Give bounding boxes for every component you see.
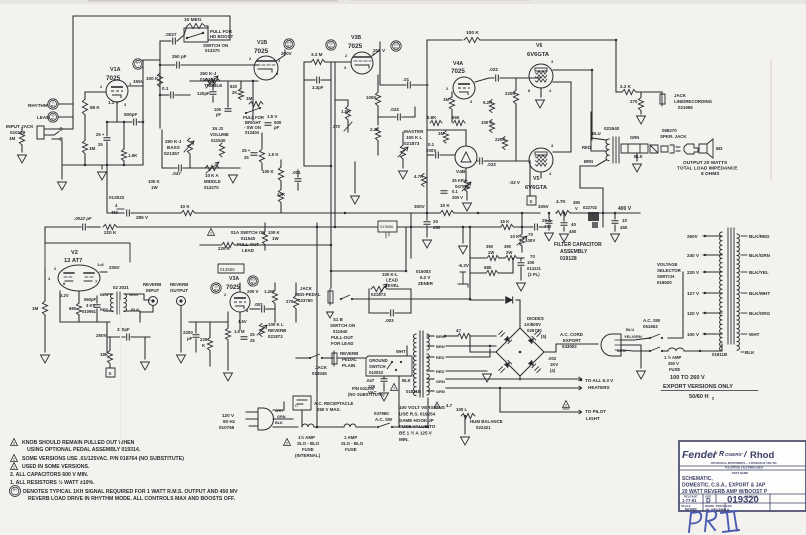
wire V6 plate to OT: [553, 70, 592, 140]
svg-text:FILTER CAPACITOR: FILTER CAPACITOR: [554, 242, 602, 248]
svg-text:VOLTAGE: VOLTAGE: [657, 262, 678, 267]
speaker plug 2: [684, 144, 698, 154]
wire: [140, 306, 153, 312]
label 400 V: [618, 206, 632, 212]
wire: [427, 335, 434, 337]
label BLK: [131, 307, 139, 312]
note triangle: [391, 384, 398, 391]
svg-text:1.5 K: 1.5 K: [268, 152, 279, 157]
wire: [206, 26, 208, 40]
label 100: [214, 107, 222, 112]
svg-text:BASS: BASS: [167, 145, 180, 150]
label 4: [549, 171, 552, 176]
svg-text:(4): (4): [550, 368, 556, 373]
svg-text:.022: .022: [489, 67, 498, 72]
svg-text:.022: .022: [390, 107, 399, 112]
wire: [106, 142, 108, 165]
label 3.2V: [60, 293, 69, 298]
label REVERB: [170, 282, 188, 287]
svg-text:GRN: GRN: [436, 379, 445, 384]
svg-text:1. ALL RESISTORS ½ WATT: 1. ALL RESISTORS ½ WATT ±10%.: [10, 479, 95, 486]
wire: [61, 165, 63, 179]
label REVERB LOAD DRIVE: [28, 496, 236, 502]
wire: [21, 128, 23, 131]
label 250 K-J: [165, 139, 182, 144]
capacitor 70uF: [535, 224, 538, 230]
wire: [475, 78, 494, 82]
resistor: [375, 128, 380, 141]
svg-text:FUSE: FUSE: [345, 447, 357, 452]
ground PT centertap: [483, 374, 492, 382]
svg-text:680: 680: [484, 265, 492, 270]
svg-text:.01: .01: [403, 77, 410, 82]
tube V6 6V6GTA: [529, 64, 553, 88]
label 100 TO 260V: [670, 375, 705, 381]
svg-text:INPUT JACK: INPUT JACK: [6, 124, 34, 129]
svg-text:-6.2V: -6.2V: [458, 263, 470, 268]
wire: [239, 312, 241, 330]
wire: [477, 160, 478, 162]
ground: [560, 234, 569, 242]
svg-text:MV: MV: [287, 44, 292, 48]
svg-text:MV: MV: [51, 104, 56, 108]
wire: [144, 337, 146, 359]
label VOLUME: [210, 132, 229, 137]
label 015003: [416, 269, 431, 274]
label 100 K: [262, 169, 275, 174]
wire: [200, 244, 221, 246]
label WHT: [275, 409, 284, 413]
wire: [261, 164, 263, 170]
label V1A: [110, 67, 121, 73]
svg-text:GRN: GRN: [630, 135, 639, 140]
wire top 100K left: [427, 39, 462, 41]
resistor 1M: [82, 141, 87, 154]
lead BLK/YEL: [741, 271, 747, 273]
label .047: [172, 171, 181, 176]
label 250 V: [668, 361, 679, 366]
label 60 Hz: [223, 419, 236, 424]
label 330pF: [117, 327, 130, 332]
label 1.5K: [128, 153, 138, 158]
label 6.2 V: [420, 275, 430, 280]
svg-text:V2: V2: [71, 250, 78, 256]
export transformer secondary: [737, 234, 739, 350]
label P/N 041200: [352, 386, 375, 391]
label TO PILOT: [585, 409, 606, 414]
svg-text:013556: 013556: [220, 267, 235, 272]
wire long vertical V1A: [142, 86, 144, 165]
svg-text:1.2M: 1.2M: [264, 289, 274, 294]
svg-text:3.2V: 3.2V: [60, 293, 69, 298]
label 7025: [254, 48, 269, 55]
svg-text:0.1: 0.1: [162, 86, 169, 91]
label LEAD: [37, 115, 50, 120]
capacitor: [480, 158, 483, 164]
svg-text:2. ALL CAPACITORS 600 V: 2. ALL CAPACITORS 600 V MIN.: [10, 472, 89, 478]
svg-text:010023: 010023: [369, 370, 384, 375]
svg-text:PLAIN: PLAIN: [342, 363, 355, 368]
wire: [470, 257, 486, 259]
label 2W: [506, 250, 512, 255]
label 2: [54, 266, 57, 271]
wire: [684, 350, 700, 352]
label 6V6GTA: [527, 52, 550, 58]
svg-text:010766: 010766: [219, 425, 235, 430]
label z: [712, 396, 715, 401]
note resistors: [10, 479, 95, 486]
label BRIGHT: [245, 120, 261, 125]
title block frame: [679, 441, 806, 511]
wire feedback top: [73, 15, 230, 17]
label 010766: [219, 425, 235, 430]
ground: [461, 437, 470, 445]
reverb transformer primary: [110, 294, 113, 312]
capacitor: [134, 119, 137, 125]
label 4: [549, 88, 552, 93]
wire: [321, 79, 331, 81]
svg-text:2W: 2W: [488, 250, 494, 255]
label FUSE: [302, 447, 314, 452]
capacitor .003: [391, 310, 394, 316]
wire to transformer: [427, 398, 429, 427]
resistor 18K: [107, 351, 112, 364]
svg-text:3.3 M: 3.3 M: [311, 52, 323, 57]
wire heater 2: [446, 387, 578, 389]
label 037960: [374, 411, 389, 416]
resistor 1.5K: [121, 149, 126, 161]
svg-text:200V: 200V: [426, 148, 436, 153]
filter cap: [546, 221, 552, 224]
label (4): [550, 368, 556, 373]
label /: [743, 449, 748, 459]
label V5: [533, 176, 539, 182]
label 20: [433, 219, 438, 224]
svg-text:019320: 019320: [727, 495, 759, 506]
wire: [227, 312, 229, 328]
wire lower rail: [117, 226, 470, 228]
wire: [240, 81, 242, 89]
fuse internal: [302, 424, 314, 427]
label 068270: [662, 128, 677, 133]
svg-text:25: 25: [250, 332, 255, 337]
svg-text:BLK: BLK: [402, 378, 411, 383]
wire: [45, 226, 81, 228]
label tap 260V: [687, 234, 699, 239]
diode bias rectifier: [506, 296, 513, 303]
svg-text:TO PILOT: TO PILOT: [585, 409, 606, 414]
wire: [304, 62, 331, 166]
wire long vertical: [316, 223, 318, 427]
label 1: [129, 81, 132, 86]
svg-text:BLU: BLU: [626, 327, 634, 332]
svg-text:250 K-J: 250 K-J: [165, 139, 182, 144]
label FUSE: [669, 367, 680, 372]
PT primary winding: [413, 334, 416, 396]
svg-text:220: 220: [200, 337, 208, 342]
label RED: [436, 369, 445, 374]
svg-text:8Ω: 8Ω: [716, 146, 723, 152]
wire: [520, 267, 522, 280]
label 220K: [495, 137, 506, 142]
wire cathode row: [107, 121, 132, 123]
wire: [470, 299, 504, 301]
svg-text:B: B: [109, 371, 112, 376]
label BRN: [436, 334, 445, 339]
svg-text:285 V: 285 V: [136, 215, 149, 220]
svg-text:120 V: 120 V: [687, 311, 700, 316]
wire: [465, 168, 467, 180]
label RELEASE: [684, 495, 697, 499]
label 1-77-81: [682, 498, 697, 503]
resistor: [278, 167, 283, 181]
wire: [316, 358, 318, 392]
bright switch: [245, 107, 261, 114]
wire: [430, 212, 440, 214]
resistor: [449, 97, 454, 110]
note knob: [22, 440, 135, 446]
svg-text:220 K: 220 K: [104, 230, 117, 235]
ground line jack: [637, 116, 646, 124]
svg-text:25 +: 25 +: [96, 132, 105, 137]
svg-text:560pF: 560pF: [84, 297, 97, 302]
wire: [295, 283, 297, 295]
wire BRN to V5 plate: [580, 160, 606, 227]
svg-text:100 K: 100 K: [268, 230, 281, 235]
svg-text:100 VOLT VERSIONS: 100 VOLT VERSIONS: [399, 405, 445, 410]
switch S1B contact: [340, 295, 353, 300]
label 1N J2: [212, 126, 224, 131]
svg-text:A.C. CORD: A.C. CORD: [560, 332, 583, 337]
wire: [471, 335, 496, 337]
wire: [163, 212, 181, 214]
label DIODES: [527, 316, 544, 321]
svg-text:010128: 010128: [10, 130, 26, 135]
resistor: [293, 296, 298, 309]
label 3: [344, 65, 347, 70]
svg-text:25: 25: [244, 155, 249, 160]
ground V6 cathode: [536, 100, 545, 108]
svg-text:LINE/RECORDING: LINE/RECORDING: [674, 99, 713, 104]
label V4B: [456, 169, 466, 175]
wire: [335, 100, 348, 106]
wire BLK down: [398, 376, 400, 427]
wire: [123, 161, 125, 165]
svg-text:SELECTOR: SELECTOR: [657, 268, 682, 273]
ground: [351, 196, 360, 204]
reverb T core: [117, 292, 120, 314]
export transformer winding: [720, 232, 722, 351]
svg-text:200 V: 200 V: [452, 195, 463, 200]
note some versions: [22, 456, 184, 462]
label 1M: [438, 131, 444, 136]
label V4A: [453, 61, 463, 67]
label 155V: [133, 79, 145, 84]
svg-text:260V: 260V: [687, 234, 699, 239]
resistor 1M: [42, 301, 47, 315]
tap wire 127 V: [703, 292, 722, 294]
label 010951: [82, 309, 97, 314]
signal-level circle: [326, 40, 336, 50]
capacitor 0.1 200V: [436, 152, 439, 158]
export T core: [728, 228, 734, 344]
underline: [661, 390, 758, 392]
label JACK: [315, 365, 328, 370]
label 3.3 M: [311, 52, 323, 57]
svg-text:(INTERNAL): (INTERNAL): [295, 453, 321, 458]
label 25: [244, 155, 249, 160]
svg-text:120pF: 120pF: [197, 91, 210, 96]
wire: [520, 258, 522, 261]
wire: [229, 16, 231, 40]
label LINE/RECORDING: [674, 99, 713, 104]
tube V1B 7025: [254, 56, 278, 80]
svg-text:7025: 7025: [226, 284, 240, 291]
wire: [464, 416, 466, 434]
wire: [337, 357, 366, 359]
svg-text:100 K: 100 K: [262, 169, 275, 174]
label 450: [433, 225, 441, 230]
fuse 1 amp: [344, 424, 356, 427]
label MASTER: [404, 129, 424, 134]
svg-text:7025: 7025: [348, 43, 363, 50]
svg-text:100 K-L: 100 K-L: [382, 272, 398, 277]
signal-level circle: [391, 41, 401, 51]
svg-text:BLK/YEL: BLK/YEL: [749, 270, 769, 275]
arrow: [576, 386, 582, 390]
wire: [428, 154, 434, 156]
svg-text:500pF: 500pF: [124, 112, 137, 117]
wire: [212, 96, 214, 102]
wire long vertical: [330, 62, 332, 288]
lead BLK/ORG: [741, 312, 747, 314]
label tap 120 V: [687, 311, 700, 316]
svg-text:240 V: 240 V: [687, 253, 700, 258]
svg-text:330pF: 330pF: [117, 327, 130, 332]
bridge diode: [528, 360, 536, 368]
label .003: [385, 318, 394, 323]
svg-text:SWITCH: SWITCH: [657, 274, 674, 279]
handwritten PR II: [689, 511, 739, 532]
wire: [84, 115, 86, 140]
wire: [614, 225, 616, 231]
label SWITCH: [369, 364, 386, 369]
label GRN: [436, 379, 445, 384]
label 70: [528, 232, 533, 237]
label 1M: [246, 96, 253, 101]
label 68 K: [90, 105, 100, 110]
svg-text:BRN: BRN: [436, 334, 445, 339]
wire: [548, 213, 550, 219]
node B box 2: [106, 368, 115, 377]
wire: [160, 40, 171, 42]
resistor: [513, 90, 518, 104]
label 051663: [643, 324, 658, 329]
svg-text:016520: 016520: [657, 280, 672, 285]
svg-text:MIDDLE: MIDDLE: [204, 179, 221, 184]
tube V1A 7025: [106, 80, 128, 102]
tube V4A 7025: [453, 77, 475, 99]
label GROUND: [369, 358, 388, 363]
tap wire 220 V: [703, 271, 722, 273]
label 2: [345, 53, 348, 58]
wire: [563, 213, 565, 221]
jack spkr tip: [650, 145, 658, 153]
wire: [160, 64, 175, 66]
wire BLU: [621, 338, 650, 340]
svg-text:20: 20: [433, 219, 438, 224]
coupling box 013556: [378, 221, 397, 238]
resistor 270: [638, 98, 643, 111]
svg-text:V1A: V1A: [110, 67, 121, 73]
label 10 K A: [205, 173, 219, 178]
bias pot 25K: [464, 181, 469, 192]
label 20 WATT REVERB AMP W: [682, 489, 768, 495]
bridge diode: [504, 360, 512, 368]
wire screens: [553, 82, 571, 152]
zener diode: [458, 272, 468, 287]
wire selector: [668, 272, 683, 338]
svg-text:200 V: 200 V: [247, 289, 259, 294]
label 4.7K: [556, 199, 566, 204]
wire to reverb input: [124, 294, 150, 300]
cap bar: [117, 208, 124, 210]
ground input: [58, 182, 67, 190]
label 450: [620, 225, 628, 230]
label 200 V: [247, 289, 259, 294]
resistor: [440, 210, 454, 215]
svg-text:BLK/GRN: BLK/GRN: [749, 253, 771, 258]
svg-text:SWITCH: SWITCH: [369, 364, 386, 369]
svg-text:REVERB: REVERB: [268, 328, 286, 333]
svg-text:25: 25: [98, 142, 103, 147]
svg-text:013045: 013045: [312, 371, 327, 376]
label (NO SUBSTITUTE): [348, 392, 385, 397]
svg-text:026730: 026730: [527, 328, 542, 333]
svg-text:-33 V: -33 V: [509, 180, 521, 185]
svg-text:.022: .022: [487, 162, 496, 167]
speaker: [699, 139, 713, 158]
svg-text:25: 25: [250, 338, 255, 343]
wire: [180, 306, 182, 352]
label 1.5 V: [267, 114, 277, 119]
label 300V: [414, 204, 426, 209]
label BRN: [584, 159, 593, 164]
wire: [540, 88, 542, 97]
label 4.7K: [414, 174, 424, 179]
label RHYTHM: [28, 103, 48, 108]
jack red-pedal: [328, 289, 333, 305]
logo Rhodes: [750, 450, 774, 461]
filter cap: [561, 223, 567, 226]
wire: [640, 92, 642, 97]
svg-text:1M: 1M: [89, 146, 96, 151]
svg-text:250 K-J: 250 K-J: [200, 71, 217, 76]
label 2W: [488, 250, 494, 255]
wire: [78, 315, 80, 322]
svg-text:3.3pF: 3.3pF: [312, 85, 324, 90]
wire: [235, 244, 331, 246]
label 100: [527, 260, 535, 265]
capacitor: [317, 77, 320, 83]
note triangle: [11, 455, 18, 462]
label LIGHT: [586, 416, 600, 421]
svg-text:SWITCH ON: SWITCH ON: [330, 323, 355, 328]
svg-text:BRN: BRN: [584, 159, 593, 164]
wire: [106, 122, 108, 136]
svg-text:BLK: BLK: [745, 350, 755, 355]
wire to V6 grid: [500, 77, 540, 79]
